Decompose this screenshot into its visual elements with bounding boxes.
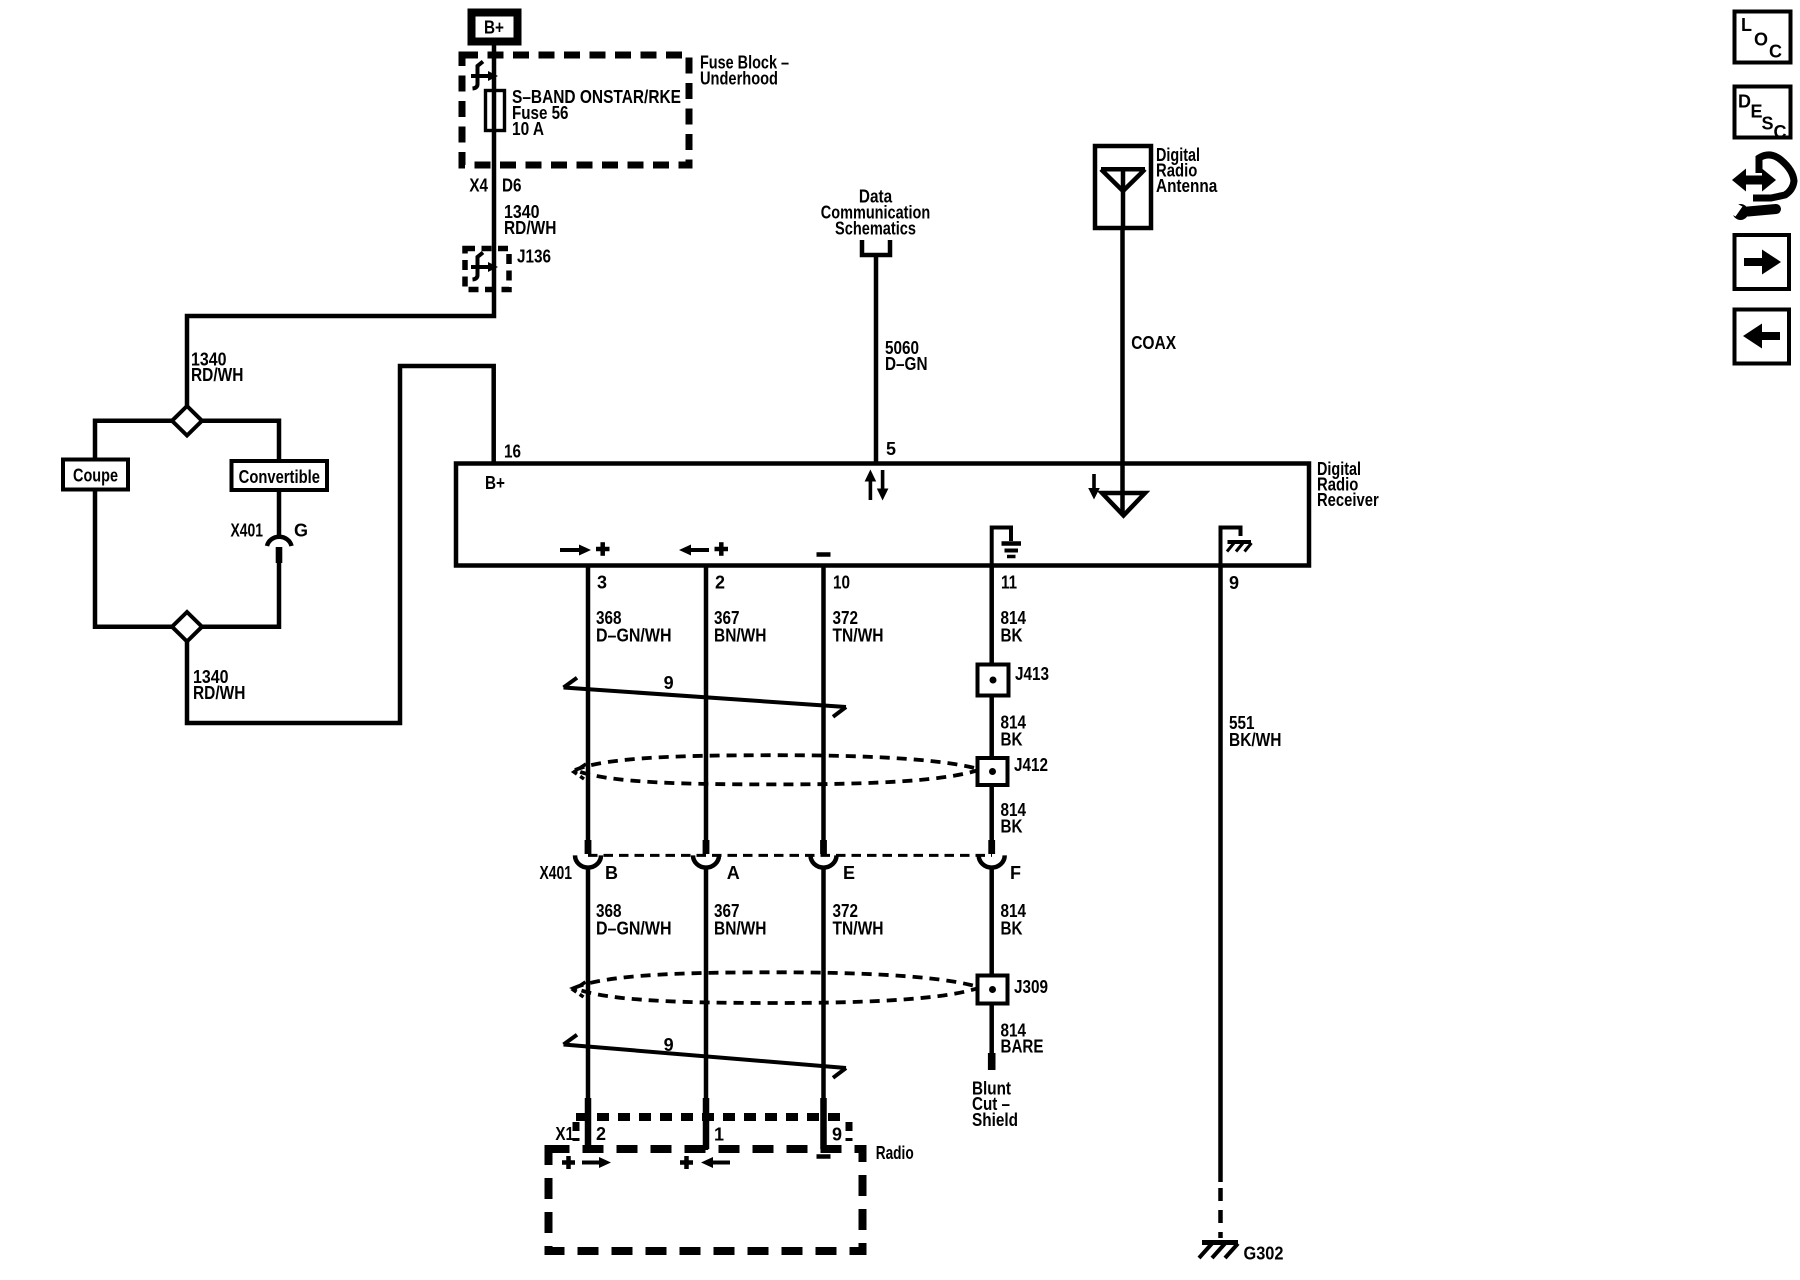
wire Coupe to bottom diamond (95, 490, 172, 627)
power feed B+ box (472, 13, 518, 42)
wire diamond to Coupe (95, 421, 172, 460)
svg-text:9: 9 (664, 673, 674, 693)
shield dashed ellipse 2 (574, 972, 980, 1003)
svg-text:A: A (727, 863, 740, 883)
svg-text:9: 9 (1229, 573, 1239, 593)
COAX internal antenna input triangle (1102, 493, 1145, 516)
svg-text:COAX: COAX (1131, 333, 1176, 353)
pin 11 internal ground symbol (992, 528, 1021, 564)
wire Convertible down to X401 G (277, 490, 282, 537)
wire data comm to receiver pin 5 (874, 255, 879, 464)
radio pin 2 polarity and arrow (562, 1156, 611, 1169)
svg-text:BK/WH: BK/WH (1229, 730, 1282, 750)
svg-text:TN/WH: TN/WH (833, 919, 884, 939)
svg-text:10 A: 10 A (512, 119, 544, 139)
shield ellipse 1 end arrow (574, 764, 586, 779)
option diamond bottom (172, 612, 202, 642)
svg-text:BK: BK (1001, 919, 1023, 939)
ground G302 chassis symbol (1199, 1243, 1238, 1259)
COAX internal down arrow (1088, 474, 1100, 500)
X1 row left tick (573, 1122, 580, 1141)
splice J413 (978, 665, 1009, 696)
radio pin 9 minus polarity (817, 1154, 831, 1159)
sidebar LOC button (1735, 12, 1791, 63)
svg-text:BARE: BARE (1001, 1037, 1044, 1057)
COAX wire antenna to receiver (1120, 228, 1125, 514)
X401 pin A connector (703, 840, 710, 854)
svg-text:RD/WH: RD/WH (193, 683, 245, 703)
radio pin 1 polarity and arrow (680, 1156, 730, 1169)
wire X401 F down to J309 (989, 867, 994, 976)
wire J412 to X401 F (989, 785, 994, 841)
terminal connector symbol inside J136 (471, 253, 498, 280)
wire pin 10 down (821, 566, 826, 842)
svg-text:B+: B+ (485, 473, 505, 493)
shield ellipse 2 end arrow (574, 982, 586, 997)
sidebar repair icon wrench (1722, 198, 1777, 221)
Convertible box (232, 461, 328, 490)
svg-text:B+: B+ (484, 18, 504, 38)
off-page bracket symbol (data communication schematics) (862, 240, 890, 255)
svg-text:X1: X1 (555, 1124, 574, 1144)
sidebar repair icon double arrow (1732, 169, 1776, 192)
svg-text:Schematics: Schematics (835, 219, 916, 239)
svg-text:X401: X401 (540, 863, 573, 883)
svg-text:J413: J413 (1015, 664, 1049, 684)
Coupe box (63, 460, 128, 490)
X401 pin F connector (988, 840, 995, 854)
pin 9 internal chassis ground symbol (1221, 528, 1252, 564)
connector X1 row dashed link (576, 1113, 849, 1121)
connector X401 pin G dome and pin (267, 537, 292, 546)
shield dashed ellipse 1 (575, 755, 980, 784)
svg-text:RD/WH: RD/WH (504, 218, 556, 238)
svg-text:Underhood: Underhood (700, 69, 778, 89)
X401 pin E connector (820, 840, 827, 854)
svg-text:J309: J309 (1014, 977, 1048, 997)
svg-text:C: C (1769, 42, 1782, 62)
wire B+ down through fuse block to J136 and corner at left (187, 45, 494, 406)
sidebar repair icon hook (1753, 155, 1794, 198)
wire J309 down to blunt cut (989, 1004, 994, 1054)
svg-text:S: S (1762, 114, 1774, 134)
svg-text:16: 16 (504, 442, 521, 462)
svg-text:BK: BK (1001, 817, 1023, 837)
sidebar back arrow button (1735, 310, 1790, 364)
svg-text:9: 9 (664, 1035, 674, 1055)
wire bottom diamond loop back up to receiver pin 16 (187, 366, 494, 723)
svg-text:J412: J412 (1014, 755, 1048, 775)
digital radio receiver box (456, 464, 1309, 566)
svg-text:Receiver: Receiver (1317, 490, 1379, 510)
splice J136 dashed box (465, 249, 509, 290)
wire pin 3 down (586, 566, 591, 842)
splice J309 (978, 976, 1008, 1004)
svg-text:L: L (1741, 15, 1752, 35)
svg-text:Convertible: Convertible (239, 467, 320, 487)
svg-text:B: B (605, 863, 618, 883)
wire X401 A down (704, 867, 709, 1151)
svg-text:Radio: Radio (876, 1143, 914, 1163)
fuse block underhood dashed box (462, 55, 689, 165)
svg-text:J136: J136 (517, 247, 551, 267)
wire pin 9 dashed tail to ground (1218, 1188, 1223, 1238)
svg-text:G302: G302 (1244, 1244, 1284, 1264)
svg-text:Antenna: Antenna (1156, 176, 1218, 196)
svg-text:X401: X401 (231, 521, 264, 541)
svg-text:G: G (294, 521, 308, 541)
svg-text:D–GN/WH: D–GN/WH (596, 919, 672, 939)
wire pin 2 down (704, 566, 709, 842)
sidebar forward arrow button (1735, 235, 1790, 289)
svg-text:E: E (843, 863, 855, 883)
svg-text:Shield: Shield (972, 1110, 1018, 1130)
pin 5 internal bidirectional arrows (865, 470, 889, 501)
option diamond top (172, 406, 202, 436)
svg-text:1: 1 (714, 1125, 724, 1145)
shield crossing slash 1 (564, 678, 847, 717)
sidebar DESC button (1735, 87, 1791, 143)
svg-text:5: 5 (886, 439, 896, 459)
svg-text:C: C (1774, 122, 1787, 142)
digital radio antenna box (1095, 146, 1151, 228)
svg-text:10: 10 (833, 573, 850, 593)
wire X401 E down (821, 867, 826, 1151)
Radio dashed box (549, 1149, 863, 1251)
pin 10 minus polarity (817, 552, 831, 557)
svg-text:O: O (1754, 30, 1768, 50)
shield crossing slash 2 (564, 1035, 847, 1078)
svg-text:TN/WH: TN/WH (833, 626, 884, 646)
wire pin 11 down to J413 (989, 566, 994, 665)
svg-text:3: 3 (597, 573, 607, 593)
wire diamond to Convertible (202, 421, 279, 461)
svg-text:D6: D6 (502, 176, 522, 196)
pin 2 input arrow and polarity (679, 542, 728, 556)
wire J413 to J412 (989, 696, 994, 759)
wire pin 9 down (1218, 566, 1223, 1183)
svg-text:D: D (1738, 92, 1751, 112)
svg-text:X4: X4 (469, 176, 488, 196)
svg-text:BN/WH: BN/WH (714, 626, 767, 646)
wire G to bottom diamond (202, 563, 279, 627)
X401 pin B connector (585, 840, 592, 854)
terminal connector at fuse block input (471, 62, 498, 89)
blunt cut shield stub (988, 1053, 996, 1070)
svg-text:BK: BK (1001, 730, 1023, 750)
svg-text:D–GN: D–GN (885, 354, 928, 374)
X1 row right tick (846, 1122, 853, 1141)
svg-text:BN/WH: BN/WH (714, 919, 767, 939)
svg-text:RD/WH: RD/WH (191, 365, 243, 385)
splice J412 (978, 758, 1008, 785)
pin 3 output arrow and polarity (560, 542, 610, 556)
connector X401 row dashed link (588, 854, 992, 857)
svg-text:F: F (1010, 863, 1021, 883)
fuse F56 (486, 91, 505, 131)
svg-text:D–GN/WH: D–GN/WH (596, 626, 672, 646)
svg-text:2: 2 (715, 573, 725, 593)
svg-text:BK: BK (1001, 626, 1023, 646)
X1 pin stubs into radio (585, 1098, 592, 1149)
svg-text:2: 2 (596, 1124, 606, 1144)
svg-text:9: 9 (832, 1125, 842, 1145)
svg-text:Coupe: Coupe (73, 466, 118, 486)
wire X401 B down (586, 867, 591, 1151)
svg-text:11: 11 (1001, 573, 1017, 593)
